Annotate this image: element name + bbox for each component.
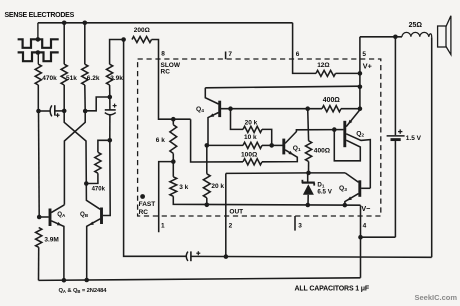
svg-text:400Ω: 400Ω: [314, 148, 331, 155]
svg-text:V−: V−: [361, 204, 370, 213]
wire E1 tap to top rail: [37, 23, 39, 40]
transistor Q2 base bar: [343, 121, 346, 147]
wire V+ to coil: [360, 36, 402, 38]
wire 400ohm-v bottom lead: [308, 162, 310, 173]
node QB emitter rail: [84, 278, 89, 283]
battery negative plate: [391, 138, 401, 141]
wire C1 right lead: [55, 110, 64, 112]
wire Q2 base lead: [334, 129, 343, 131]
wire battery top lead: [394, 37, 396, 135]
resistor 10k: [243, 142, 262, 148]
svg-text:FAST: FAST: [139, 201, 156, 208]
wire 3k top lead: [172, 162, 174, 177]
capacitor C2 plus: [113, 105, 117, 107]
pin 7 stub: [225, 52, 227, 60]
wire 3.9M bottom lead: [38, 247, 40, 280]
diode D1 cathode bar: [302, 182, 315, 184]
wire 20k bottom lead: [206, 198, 208, 205]
sense electrode E2 (lower comb): [18, 52, 59, 61]
wire Q2 base-collector loop: [334, 130, 360, 161]
transistor QB base bar: [100, 208, 103, 225]
svg-text:3: 3: [298, 223, 302, 230]
node 400ohm-h left: [305, 106, 310, 111]
wire 400ohm-v top lead: [307, 109, 310, 141]
svg-text:QA & QB = 2N2484: QA & QB = 2N2484: [59, 288, 108, 294]
wire 10k right lead: [262, 144, 272, 146]
wire D1 bottom lead: [307, 195, 309, 205]
svg-text:470k: 470k: [92, 186, 106, 192]
svg-text:1.5 V: 1.5 V: [406, 135, 422, 142]
svg-text:10 k: 10 k: [244, 134, 257, 141]
node E1 tap: [36, 37, 41, 42]
wire C1 left lead: [38, 110, 50, 112]
wire 6.2k bottom lead: [84, 85, 86, 111]
wire 10k left lead: [207, 144, 243, 146]
svg-text:ALL CAPACITORS 1 μF: ALL CAPACITORS 1 μF: [295, 285, 370, 292]
wire crossover 51k-to-QB: [64, 111, 86, 184]
wire 6k leads: [172, 119, 174, 125]
resistor 470k-2: [95, 152, 101, 173]
svg-text:3.9M: 3.9M: [44, 237, 58, 244]
node 20k bottom: [205, 203, 210, 208]
node rail-51k: [62, 21, 67, 26]
wire QB base line: [103, 140, 110, 215]
svg-text:6.2k: 6.2k: [87, 75, 100, 82]
wire 6k bottom to FAST RC pin 1: [159, 162, 174, 233]
wire battery return: [361, 236, 396, 238]
wire 6.2k to C2 jog: [85, 97, 110, 111]
capacitor C2 curved plate: [105, 113, 116, 115]
svg-text:RC: RC: [161, 69, 171, 76]
resistor 20k horizontal: [243, 126, 262, 132]
wire C3 to speaker line: [191, 255, 432, 258]
wire Q4 collector bus y=87: [205, 86, 360, 88]
wire 470k-2 bottom lead: [86, 173, 98, 183]
svg-text:7: 7: [228, 51, 232, 58]
transistor Q1 emitter lead: [262, 150, 297, 162]
svg-text:2: 2: [229, 223, 233, 230]
wire pin 8 internal to 6k top: [159, 59, 191, 119]
svg-text:51k: 51k: [66, 75, 77, 82]
pin 3 stub: [294, 216, 296, 231]
node 6.2k bottom: [83, 109, 88, 114]
resistor 400ohm horizontal: [322, 106, 341, 112]
node E2 tap: [36, 50, 41, 55]
resistor 470k (left column): [35, 64, 41, 85]
wire OUT pin2 vertical: [225, 173, 227, 256]
svg-text:SeekIC.com: SeekIC.com: [415, 293, 458, 301]
svg-text:RC: RC: [139, 209, 149, 216]
capacitor C3 curved plate: [186, 252, 188, 261]
node pin4-battery junction: [358, 235, 363, 240]
wire 51k bottom lead: [63, 85, 65, 111]
capacitor C3 plus: [196, 252, 200, 254]
svg-text:6.5 V: 6.5 V: [317, 189, 332, 196]
svg-text:6 k: 6 k: [156, 137, 165, 144]
svg-text:1: 1: [161, 223, 165, 230]
wire Q3 base lead: [361, 187, 370, 189]
wire QB collector lead: [86, 184, 100, 210]
transistor Q4 emitter arrow: [209, 113, 214, 117]
svg-text:6: 6: [296, 51, 300, 58]
wire speaker line down: [431, 37, 433, 257]
svg-text:20 k: 20 k: [245, 120, 258, 127]
svg-text:12Ω: 12Ω: [317, 62, 329, 69]
node V+ 12ohm: [358, 71, 363, 76]
node Q2 base node: [332, 127, 337, 132]
transistor QA collector lead: [51, 205, 64, 213]
wire Q4 emitter down to 20k: [206, 145, 208, 173]
wire 470k-2 top lead: [98, 140, 110, 152]
transistor Q4 base bar: [218, 101, 221, 117]
svg-text:25Ω: 25Ω: [409, 22, 423, 29]
transistor Q2 collector lead: [346, 134, 370, 189]
capacitor C3 straight plate: [190, 251, 192, 261]
wire pin 6 drop from top rail: [293, 23, 316, 74]
svg-text:OUT: OUT: [229, 209, 243, 216]
transistor QA emitter lead: [51, 221, 64, 279]
node 470k-2 bottom: [84, 181, 89, 186]
wire 6.2k top: [84, 23, 86, 64]
transistor Q4 emitter lead: [208, 113, 219, 146]
node 6k top: [171, 117, 176, 122]
node C2 bottom: [108, 138, 113, 143]
node battery-top: [393, 35, 398, 40]
resistor 6k: [170, 125, 177, 154]
resistor 100ohm: [243, 159, 262, 165]
transistor Q2 emitter arrow (PNP): [348, 120, 352, 125]
wire Q1 base lead: [272, 144, 283, 146]
svg-text:470k: 470k: [42, 75, 57, 82]
wire QA base lead: [39, 216, 48, 218]
wire 51k top: [63, 23, 65, 64]
wire slow-rc node long vertical: [124, 40, 186, 257]
wire 400ohm-h right lead: [341, 108, 360, 110]
transistor QA base bar: [49, 209, 52, 227]
transistor Q3 collector lead: [345, 173, 358, 182]
transistor Q3 emitter arrow: [347, 197, 352, 201]
wire battery bottom lead: [394, 140, 396, 238]
wire 20k-h right elbow: [262, 129, 272, 145]
resistor 6.2k: [82, 64, 88, 85]
wire pin4 V- vertical: [360, 205, 362, 278]
wire 3.9k top elbow: [110, 40, 124, 65]
resistor 51k: [61, 64, 67, 85]
capacitor C2 top lead: [109, 97, 111, 110]
svg-text:200Ω: 200Ω: [134, 27, 150, 34]
IC dashed box outline: [138, 59, 381, 216]
wire 200ohm right to pin 8: [152, 40, 159, 60]
node V+ mid: [358, 85, 363, 90]
node OUT-C3: [224, 254, 229, 259]
battery positive plate: [387, 135, 405, 137]
node D1 bottom: [306, 203, 311, 208]
FAST RC node bullet: [140, 194, 145, 199]
wire pin8 path elbow down: [191, 119, 243, 162]
wire upper rail to Q3: [226, 172, 309, 175]
node Q1 base node: [269, 143, 274, 148]
resistor 3k: [170, 177, 177, 197]
resistor 3.9k: [107, 64, 113, 85]
resistor 20k vertical: [203, 174, 210, 198]
wire 20k-h left elbow: [231, 109, 244, 130]
capacitor C2 straight plate: [105, 109, 116, 111]
svg-text:5: 5: [362, 51, 366, 58]
transistor Q4 collector lead: [205, 88, 218, 104]
battery plus sign: [398, 131, 402, 133]
wire crossover 6.2k-to-QA: [64, 111, 85, 205]
node V+ low: [358, 106, 363, 111]
svg-text:4: 4: [363, 223, 367, 230]
transistor QB emitter arrow: [89, 222, 94, 226]
svg-text:3 k: 3 k: [179, 184, 188, 191]
capacitor C1 straight plate: [54, 105, 56, 115]
speaker symbol: [438, 26, 446, 47]
node C1 right: [62, 109, 67, 114]
node QA base: [37, 215, 42, 220]
resistor 400ohm vertical: [306, 141, 312, 162]
transistor Q1 collector lead: [285, 130, 334, 144]
wire pin5 V+ vertical rail: [359, 37, 361, 110]
transistor Q3 emitter lead: [345, 194, 359, 206]
node 3.9k-C2 junction: [108, 95, 113, 100]
node 6k bottom: [171, 159, 176, 164]
node 400ohm-v bottom: [306, 171, 311, 176]
svg-text:V+: V+: [363, 62, 372, 71]
sense electrode E1 (upper comb): [18, 39, 59, 48]
wire 3k bottom to OUT rail: [173, 196, 360, 205]
node rail-6.2k: [83, 21, 88, 26]
wire C2 bottom lead: [109, 115, 111, 141]
node QA emitter rail: [62, 278, 67, 283]
wire 3.9k bottom lead: [109, 85, 111, 97]
svg-text:8: 8: [161, 51, 165, 58]
transistor Q1 base bar: [282, 139, 285, 155]
svg-text:SENSE ELECTRODES: SENSE ELECTRODES: [5, 12, 75, 19]
svg-text:400Ω: 400Ω: [323, 97, 340, 104]
wire 12ohm to V+ rail: [336, 72, 360, 74]
wire top rail: [38, 22, 293, 24]
capacitor C1 curved plate: [50, 105, 52, 116]
node Q3 emitter: [343, 203, 348, 208]
wire 470k line down to QA base: [37, 85, 39, 111]
node 200ohm-left junction: [121, 37, 126, 42]
wire E2 tap down to R 470k: [37, 53, 39, 65]
transistor QB emitter lead: [87, 219, 101, 280]
svg-text:100Ω: 100Ω: [241, 152, 258, 159]
diode D1 triangle: [303, 184, 314, 195]
node C1 left: [36, 109, 41, 114]
inductor 25ohm voice coil: [402, 32, 432, 37]
resistor 12ohm: [316, 70, 336, 76]
transistor QA emitter arrow: [57, 222, 62, 226]
node Q4 emitter-10k: [205, 143, 210, 148]
svg-text:3.9k: 3.9k: [110, 75, 123, 82]
wire D1 top lead: [307, 173, 309, 182]
wire bottom rail: [39, 278, 361, 281]
node Q4 base node: [228, 106, 233, 111]
svg-text:20 k: 20 k: [211, 183, 224, 190]
resistor 200ohm: [132, 37, 152, 43]
transistor Q2 emitter lead: [346, 110, 360, 127]
wire Q4 base line: [221, 108, 322, 110]
transistor Q3 base bar: [358, 180, 361, 197]
transistor Q1 emitter arrow: [288, 151, 293, 155]
resistor 3.9M: [36, 228, 42, 248]
capacitor C1 plus: [56, 114, 60, 116]
